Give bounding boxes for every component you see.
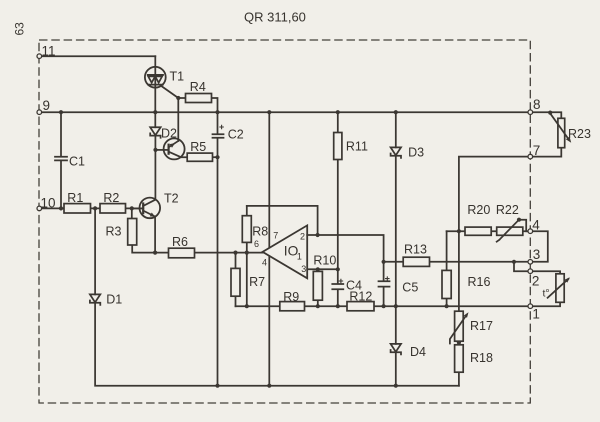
- svg-text:R3: R3: [106, 225, 122, 239]
- svg-text:D2: D2: [161, 126, 177, 140]
- svg-text:R12: R12: [349, 289, 372, 303]
- svg-text:C5: C5: [402, 281, 418, 295]
- svg-text:R9: R9: [283, 290, 299, 304]
- svg-text:QR 311,60: QR 311,60: [244, 10, 306, 25]
- svg-text:R1: R1: [67, 191, 83, 205]
- svg-text:R5: R5: [190, 140, 206, 154]
- svg-text:R4: R4: [190, 80, 206, 94]
- svg-text:R18: R18: [470, 351, 493, 365]
- svg-text:7: 7: [273, 231, 278, 241]
- svg-text:3: 3: [533, 247, 541, 262]
- svg-text:T2: T2: [164, 192, 179, 206]
- svg-text:4: 4: [532, 217, 540, 232]
- svg-text:2: 2: [532, 274, 540, 289]
- svg-text:6: 6: [254, 239, 259, 249]
- svg-text:R10: R10: [313, 253, 336, 267]
- svg-text:R22: R22: [496, 203, 519, 217]
- svg-text:R16: R16: [468, 275, 491, 289]
- svg-text:63: 63: [13, 22, 27, 36]
- svg-text:D1: D1: [106, 292, 122, 306]
- svg-text:8: 8: [533, 97, 541, 112]
- svg-text:R7: R7: [249, 275, 265, 289]
- svg-text:1: 1: [532, 306, 540, 321]
- svg-text:R8: R8: [252, 224, 268, 238]
- svg-text:2: 2: [300, 231, 305, 241]
- svg-text:R17: R17: [470, 319, 493, 333]
- svg-text:D4: D4: [410, 345, 426, 359]
- svg-text:3: 3: [301, 264, 306, 274]
- svg-text:R23: R23: [568, 127, 591, 141]
- svg-text:R11: R11: [346, 139, 368, 153]
- svg-text:C2: C2: [228, 128, 244, 142]
- svg-text:C1: C1: [69, 155, 85, 169]
- svg-text:7: 7: [533, 143, 541, 158]
- svg-text:t°: t°: [543, 288, 550, 300]
- svg-text:9: 9: [43, 98, 51, 113]
- svg-text:T1: T1: [170, 70, 185, 84]
- svg-text:R2: R2: [103, 191, 119, 205]
- svg-text:11: 11: [42, 44, 56, 59]
- svg-text:4: 4: [262, 258, 267, 268]
- svg-text:R6: R6: [172, 235, 188, 249]
- svg-text:1: 1: [297, 252, 302, 262]
- svg-text:D3: D3: [408, 145, 424, 159]
- svg-text:R20: R20: [467, 203, 490, 217]
- svg-text:R13: R13: [404, 242, 427, 256]
- svg-text:10: 10: [41, 195, 56, 210]
